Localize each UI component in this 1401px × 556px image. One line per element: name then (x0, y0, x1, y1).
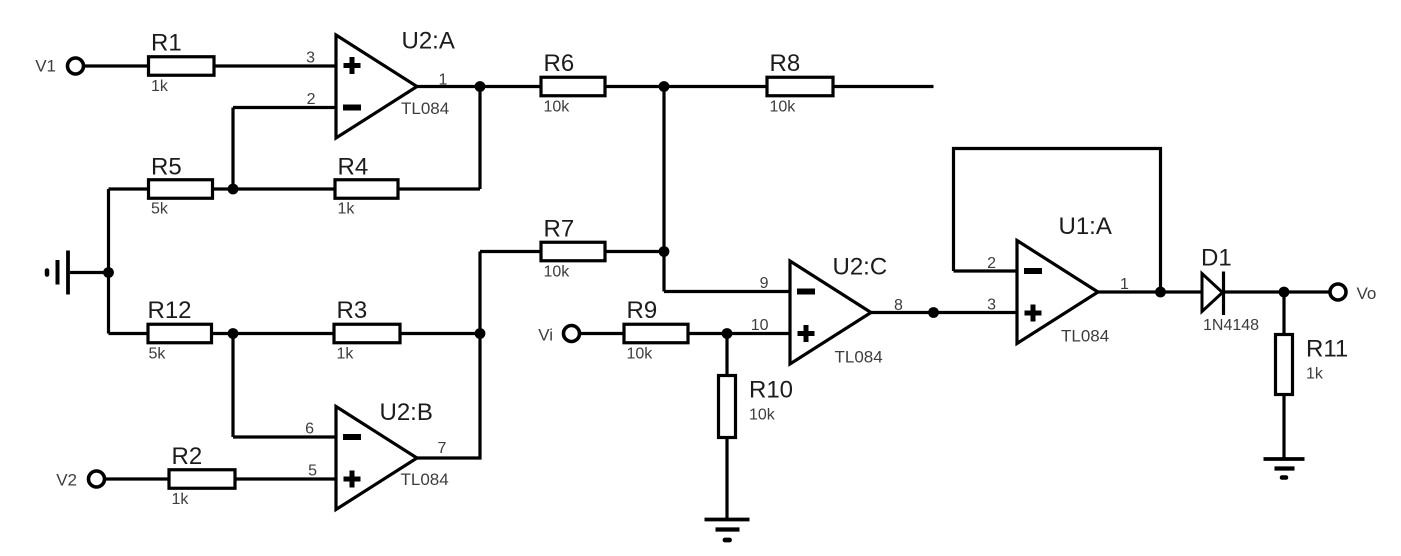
resistor R2 (169, 470, 235, 489)
resistor R4 (335, 180, 398, 199)
wire (662, 87, 665, 292)
wire (871, 311, 1017, 314)
svg-text:R4: R4 (338, 154, 369, 181)
svg-text:V2: V2 (56, 471, 77, 490)
junction (1279, 287, 1290, 298)
resistor R11 (1276, 335, 1293, 395)
svg-text:U2:B: U2:B (380, 399, 433, 426)
svg-text:1k: 1k (337, 346, 355, 363)
resistor R9 (624, 324, 688, 343)
terminal V1 (68, 58, 84, 74)
junction (103, 267, 114, 278)
wire (107, 189, 110, 334)
resistor R8 (767, 77, 833, 96)
wire (580, 332, 791, 335)
svg-text:10k: 10k (544, 99, 571, 116)
op-amp U2:C (790, 261, 871, 364)
wire (664, 290, 790, 293)
svg-text:10k: 10k (749, 407, 776, 424)
junction (475, 328, 486, 339)
junction (928, 307, 939, 318)
wire (70, 271, 109, 274)
wire (233, 435, 336, 438)
resistor R12 (148, 324, 212, 343)
svg-text:2: 2 (307, 91, 316, 108)
svg-text:5: 5 (308, 463, 317, 480)
wire (1223, 290, 1331, 293)
svg-text:6: 6 (305, 421, 314, 438)
svg-text:3: 3 (306, 50, 315, 67)
svg-text:1k: 1k (1306, 366, 1324, 383)
wire (417, 456, 482, 459)
svg-text:10k: 10k (544, 264, 571, 281)
junction (228, 184, 239, 195)
resistor R3 (334, 324, 400, 343)
svg-text:Vo: Vo (1357, 284, 1377, 303)
wire (417, 85, 934, 88)
svg-text:1k: 1k (338, 201, 356, 218)
wire (725, 334, 728, 520)
resistor R7 (541, 242, 605, 261)
wire (1098, 290, 1201, 293)
wire (214, 64, 336, 67)
resistor R6 (541, 77, 605, 96)
wire (109, 187, 481, 190)
svg-text:R10: R10 (749, 377, 793, 404)
svg-text:1N4148: 1N4148 (1203, 317, 1259, 334)
wire (233, 106, 336, 109)
svg-text:R1: R1 (151, 30, 182, 57)
svg-text:TL084: TL084 (1061, 327, 1109, 346)
svg-text:U2:A: U2:A (402, 28, 455, 55)
junction (722, 328, 733, 339)
svg-text:5k: 5k (151, 201, 169, 218)
svg-text:U1:A: U1:A (1059, 213, 1112, 240)
svg-text:3: 3 (987, 297, 996, 314)
op-amp U2:A (336, 35, 417, 138)
svg-text:8: 8 (894, 297, 903, 314)
wire (105, 477, 337, 480)
wire (109, 332, 481, 335)
svg-text:10: 10 (751, 317, 769, 334)
svg-text:V1: V1 (35, 57, 56, 76)
svg-text:R8: R8 (770, 50, 801, 77)
wire (954, 269, 1018, 272)
svg-text:10k: 10k (770, 99, 797, 116)
op-amp U1:A (1017, 241, 1098, 344)
svg-text:1: 1 (439, 72, 448, 89)
wire (231, 334, 234, 438)
svg-text:U2:C: U2:C (833, 254, 888, 281)
svg-text:1: 1 (1120, 276, 1129, 293)
diode D1 (1202, 272, 1224, 316)
junction (475, 81, 486, 92)
svg-text:R9: R9 (627, 297, 658, 324)
svg-text:R3: R3 (337, 297, 368, 324)
wire (84, 64, 149, 67)
wire (954, 149, 1161, 293)
svg-text:9: 9 (760, 275, 769, 292)
wire (231, 108, 234, 190)
ground (705, 520, 750, 541)
svg-text:TL084: TL084 (835, 348, 883, 367)
svg-text:D1: D1 (1201, 245, 1232, 272)
svg-text:Vi: Vi (538, 326, 553, 345)
resistor R10 (719, 376, 736, 438)
ground (47, 251, 68, 295)
resistor R5 (149, 180, 213, 199)
svg-text:TL084: TL084 (401, 470, 449, 489)
svg-text:R6: R6 (544, 50, 575, 77)
svg-text:R2: R2 (172, 443, 203, 470)
terminal Vo (1330, 284, 1346, 300)
svg-text:5k: 5k (149, 346, 167, 363)
op-amp U2:B (336, 407, 417, 510)
junction (659, 81, 670, 92)
svg-text:R5: R5 (151, 154, 182, 181)
wire (478, 252, 481, 460)
svg-text:TL084: TL084 (401, 99, 449, 118)
terminal V2 (89, 471, 105, 487)
wire (1282, 292, 1285, 459)
svg-text:1k: 1k (172, 491, 190, 508)
wire (480, 250, 664, 253)
svg-text:1k: 1k (151, 78, 169, 95)
svg-text:2: 2 (987, 255, 996, 272)
svg-text:10k: 10k (627, 346, 654, 363)
svg-text:R12: R12 (148, 297, 192, 324)
svg-text:R11: R11 (1306, 336, 1348, 363)
junction (1155, 287, 1166, 298)
ground (1264, 459, 1305, 478)
junction (659, 246, 670, 257)
junction (228, 328, 239, 339)
wire (478, 85, 481, 189)
resistor R1 (149, 57, 215, 76)
terminal Vi (564, 326, 580, 342)
svg-text:R7: R7 (544, 216, 575, 243)
svg-text:7: 7 (438, 440, 447, 457)
